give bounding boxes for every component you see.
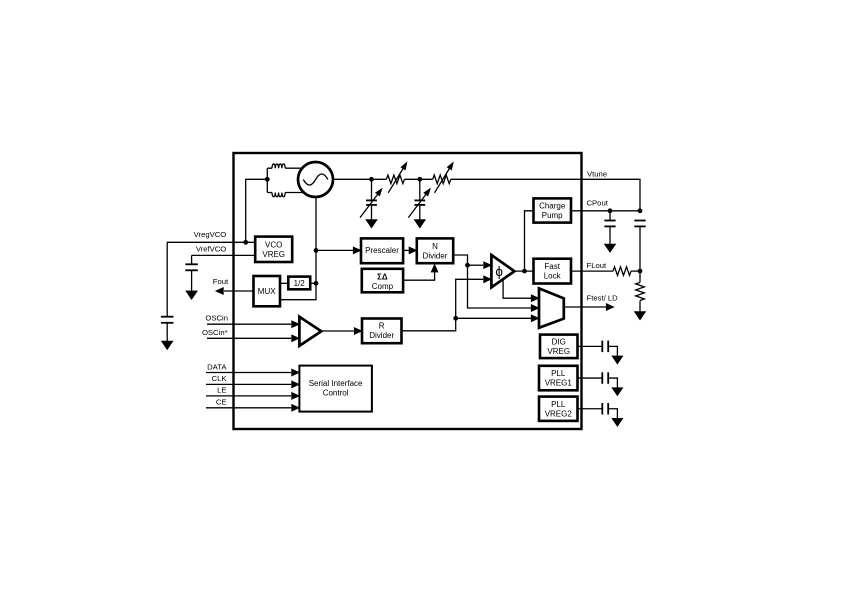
arrowhead [292,335,300,342]
svg-text:DIG: DIG [552,337,566,346]
svg-text:FLout: FLout [587,261,608,270]
capacitor C6 [634,220,645,222]
ground [366,220,377,228]
arrowhead [484,262,492,269]
ground [604,244,615,252]
wire half divider to node [310,282,316,284]
wire phase det output [514,270,533,272]
arrowhead [292,392,300,399]
svg-text:Charge: Charge [539,202,566,211]
Serial Interface Control box [299,366,372,412]
svg-text:Fast: Fast [544,262,560,271]
wire varactor 2 stub [419,179,421,200]
wire to phase detector [468,264,484,266]
MUX box [254,276,281,306]
svg-text:VrefVCO: VrefVCO [196,244,226,253]
N Divider box [417,238,453,263]
wire PLL VREG2 cap to ground [608,409,617,419]
PLL VREG2 box [539,397,578,421]
wire R1 to node [631,270,640,272]
wire sigma-delta to N divider [403,273,435,281]
svg-text:ΣΔ: ΣΔ [377,273,388,282]
svg-text:Serial Interface: Serial Interface [309,379,363,388]
wire C5 stub [609,211,611,221]
node VregVCO junction [243,240,248,245]
svg-text:PLL: PLL [551,400,566,409]
wire MUX to 1/2 [280,282,288,284]
wire C6 to FLout node [639,226,641,271]
svg-text:VCO: VCO [265,241,282,250]
resistor R1 [613,267,631,276]
wire CE [206,407,291,409]
ground [612,388,623,396]
varactor C1 [366,199,377,201]
svg-text:LE: LE [217,386,226,395]
varactor resistor VR1 [386,175,404,184]
svg-text:CLK: CLK [212,374,228,383]
VCO VREG box U1 [255,237,292,262]
svg-text:VREG2: VREG2 [545,409,573,418]
node FLout [638,269,643,274]
node CPout cap1 [608,208,613,213]
arrowhead mux bottom [531,315,539,322]
wire PLL VREG1 cap to ground [608,378,617,388]
wire to mux bottom [456,317,531,319]
capacitor PLL VREG1 [601,372,603,384]
svg-text:Divider: Divider [423,251,448,260]
node N divider feedback [465,263,470,268]
wire varactor 1 to ground [371,205,373,220]
wire VregVCO bypass drop [166,242,168,316]
node prescaler tap [314,248,319,253]
wire CLK [206,383,291,385]
wire R divider to phase detector [402,279,484,331]
svg-text:CPout: CPout [587,199,609,208]
wire node to R2 [639,271,641,282]
arrowhead Fout [216,288,224,295]
wire to charge pump [525,211,534,271]
svg-text:Fout: Fout [213,277,229,286]
arrowhead mux mid [531,305,539,312]
wire R2 to ground [639,301,641,312]
node phase det output [522,269,527,274]
node R divider branch [453,316,458,321]
svg-text:ϕ: ϕ [495,264,503,279]
DIG VREG box [540,335,578,359]
capacitor C3 [161,316,174,318]
inductor L2 [267,193,303,197]
node varactor 2 tap [417,177,422,182]
wire VrefVCO bypass drop [191,255,193,264]
Prescaler box [361,238,403,263]
svg-text:DATA: DATA [207,362,227,371]
svg-text:VREG: VREG [547,347,570,356]
R Divider box [362,319,402,344]
wire CPout [571,210,640,212]
node varactor 1 tap [369,177,374,182]
wire between varactors [405,178,433,180]
arrowhead [292,369,300,376]
wire VrefVCO [192,254,256,256]
svg-text:OSCin: OSCin [205,314,228,323]
svg-text:VregVCO: VregVCO [194,230,227,239]
ground [186,291,198,300]
svg-text:CE: CE [216,398,227,407]
svg-text:N: N [432,242,438,251]
capacitor PLL VREG2 [601,403,603,415]
sigma-delta comp box [362,269,403,293]
wire LE [206,395,291,397]
arrowhead [431,264,438,272]
svg-text:MUX: MUX [258,287,276,296]
arrowhead [292,381,300,388]
mux selector [539,288,564,327]
arrowhead [353,247,361,254]
chip outline [234,153,582,429]
wire OSCin* [207,337,291,339]
arrowhead [354,328,362,335]
node half divider tap [314,281,319,286]
svg-text:Vtune: Vtune [587,170,607,179]
wire to prescaler [316,249,353,251]
node CPout cap2 [638,208,643,213]
arrowhead [484,276,492,283]
inductor L1 [267,164,303,168]
wire tank to VregVCO node [246,179,268,242]
phase detector U2 [491,255,514,287]
wire buffer to R divider [321,330,354,332]
wire PLL VREG2 bypass [578,408,603,410]
svg-text:Divider: Divider [369,331,394,340]
wire OSCin [207,323,291,325]
Fast Lock box U4 [534,259,572,284]
arrowhead mux top [531,295,539,302]
svg-text:Control: Control [323,389,349,398]
svg-text:Lock: Lock [544,272,562,281]
capacitor DIG VREG [601,341,603,353]
ground [414,220,425,228]
wire VCO output [333,178,386,180]
wire N divider output [453,255,531,308]
wire phase det to mux [503,280,531,298]
wire VCO to MUX [280,197,316,300]
wire C4 to ground [191,270,193,291]
svg-text:Prescaler: Prescaler [365,246,399,255]
svg-text:1/2: 1/2 [294,279,306,288]
svg-text:VREG: VREG [262,250,285,259]
svg-text:R: R [379,322,385,331]
wire Fout [224,290,254,292]
resistor R2 [636,282,645,300]
wire C5 to ground [609,226,611,244]
wire varactor 1 stub [371,179,373,200]
wire PLL VREG1 bypass [578,377,603,379]
arrowhead [292,321,300,328]
wire DATA [206,372,291,374]
capacitor C4 [185,263,198,265]
ground [161,341,173,350]
wire Vtune net [451,179,640,211]
wire C3 to ground [166,323,168,341]
ground [634,312,645,320]
varactor C2 [414,199,425,201]
capacitor C5 [604,220,615,222]
wire VregVCO [167,241,255,243]
oscillator VCO [298,162,333,197]
wire DIG VREG bypass [578,345,603,347]
varactor resistor VR2 [433,175,451,184]
divider 1/2 box [288,277,310,290]
buffer U5 [299,317,321,346]
ground [612,356,623,364]
PLL VREG1 box [539,366,578,391]
arrowhead Ftest [606,304,614,311]
node tank junction [265,177,270,182]
svg-text:PLL: PLL [551,369,566,378]
wire DIG VREG cap to ground [608,346,617,356]
wire varactor 2 to ground [419,205,421,220]
svg-text:OSCin*: OSCin* [202,328,228,337]
wire FLout [571,270,613,272]
Charge Pump box U3 [534,198,572,222]
wire prescaler to N divider [403,249,409,251]
arrowhead [292,404,300,411]
svg-text:Pump: Pump [542,211,563,220]
svg-text:Ftest/ LD: Ftest/ LD [587,294,619,303]
wire tank loop left [266,168,268,192]
svg-text:Comp: Comp [372,282,394,291]
wire Ftest/LD [564,306,606,308]
ground [612,418,623,426]
svg-text:VREG1: VREG1 [545,379,573,388]
arrowhead [409,247,417,254]
